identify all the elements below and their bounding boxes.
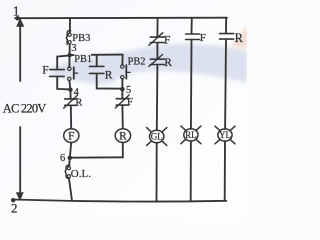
node 2 [11,198,16,203]
svg-text:F: F [42,65,48,77]
coil F [64,129,79,143]
svg-text:5: 5 [126,85,131,96]
contact R (NO, lamp YL branch) [220,34,234,40]
svg-text:RL: RL [185,130,197,140]
svg-text:PB2: PB2 [128,56,146,67]
wire top rail (node1 to top-right corner) [15,17,227,20]
svg-text:AC 220V: AC 220V [3,102,47,116]
contact F (NC, lamp GL branch) [149,33,164,46]
svg-text:O.L.: O.L. [71,168,91,180]
svg-text:2: 2 [11,201,18,216]
wire lamp branch 1 top [156,18,158,36]
svg-text:4: 4 [74,87,80,98]
svg-text:F: F [200,32,206,44]
node 6 [68,156,73,161]
wire F interlock to coil R [121,105,123,128]
svg-text:YL: YL [219,130,231,140]
svg-text:R: R [75,98,82,109]
svg-text:PB1: PB1 [74,54,92,65]
svg-text:R: R [105,69,113,81]
wire node 4 to R interlock [70,90,72,99]
push button PB2 (NO reverse) [121,65,130,79]
coil R [115,129,130,143]
source AC 220V arrows [16,19,24,200]
wire between GL branch contacts [156,43,158,58]
svg-text:R: R [164,57,172,69]
lamp YL [215,126,235,144]
wire R interlock to coil F [70,106,72,129]
wire lamp branch 3 top [225,18,227,33]
lamp GL [147,128,167,146]
wire bottom rail (node2 to bottom-right corner) [13,200,226,202]
wire node3 to PB1 [68,55,70,67]
contact F (NO, lamp RL branch) [186,34,200,40]
svg-text:F: F [127,97,133,108]
svg-text:GL: GL [151,132,163,142]
wire RL contact to lamp RL [190,40,193,128]
svg-text:F: F [68,131,74,143]
wire node 6 horizontal to coil R branch [70,156,123,158]
svg-text:1: 1 [13,4,20,19]
contact O.L. overload [65,165,70,178]
wire PB3 to node 3 [69,44,71,55]
svg-text:3: 3 [71,43,76,54]
wire PB2 to node 5 [121,79,123,89]
wire PB2 top stub [121,55,123,65]
svg-text:6: 6 [60,153,65,164]
wire GL contact to lamp GL [156,65,159,130]
contact R (NC interlock) [64,95,78,108]
wire coil R to horizontal [122,143,124,158]
wire lamp GL to bottom rail [156,143,158,201]
wire coil F to node 6 [70,143,71,157]
wire O.L. to bottom rail [69,178,72,201]
svg-text:R: R [235,31,244,45]
push button PB3 (NC stop) [66,31,71,45]
node 1 [15,16,20,21]
wire lamp RL to bottom rail [190,141,192,201]
contact R (NC, lamp GL branch) [149,55,164,67]
contact F (holding, parallel with PB1) [50,70,65,77]
node 3 [67,53,72,58]
svg-text:F: F [164,35,170,47]
wire PB3 top stub [69,18,71,33]
wire node 6 to O.L. [68,159,71,167]
wire lamp branch 2 top [191,18,193,33]
svg-text:R: R [119,131,127,143]
wire lamp YL to bottom rail [224,141,226,201]
wire node 5 to F interlock [121,89,123,98]
wire R-holding branch loop [97,55,123,89]
contact F (NC interlock) [115,95,129,108]
wire node 3 to PB2 top [70,54,123,57]
wire YL contact to lamp YL [224,40,227,129]
node 5 [120,87,125,92]
contact R (holding, parallel with PB2) [89,66,104,73]
node 4 [68,87,73,92]
lamp RL [181,126,201,144]
wire PB1 to node 4 [68,81,71,90]
push button PB1 (NO forward) [68,67,78,81]
wire F-holding branch loop [57,55,70,89]
